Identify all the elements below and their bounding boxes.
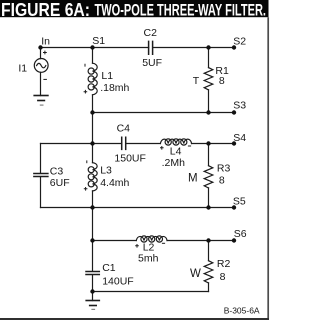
node S1 dot — [90, 45, 94, 49]
node S6 dot — [232, 238, 236, 242]
inductor L4 coil (horizontal) — [160, 139, 191, 143]
svg-text:L3: L3 — [100, 165, 112, 177]
svg-text:S5: S5 — [233, 195, 246, 207]
capacitor C4 plates — [122, 137, 126, 149]
inductor L1 coil (vertical) — [93, 63, 98, 95]
node S2 dot — [232, 45, 236, 49]
wire resistor column x=208 — [208, 48, 210, 292]
L4 plus — [160, 146, 164, 150]
L1 minus (tick) — [84, 64, 86, 67]
wire rail E (S6) — [93, 240, 235, 242]
svg-text:C1: C1 — [102, 262, 116, 274]
junction rail B / main — [90, 110, 94, 114]
source I1 sine — [37, 63, 46, 67]
svg-text:I1: I1 — [18, 63, 27, 75]
wire I1 column — [40, 48, 42, 96]
svg-text:W: W — [190, 268, 201, 280]
svg-text:.2Mh: .2Mh — [162, 157, 186, 169]
junction rail A / R1 — [206, 45, 210, 49]
bottom border — [0, 318, 269, 320]
junction rail C / R3 — [206, 141, 210, 145]
svg-text:L1: L1 — [101, 70, 113, 82]
svg-text:S1: S1 — [92, 35, 105, 47]
wire main column x=93 — [92, 48, 94, 301]
L4 minus — [188, 145, 191, 147]
ground (bottom) — [86, 300, 99, 302]
svg-text:R2: R2 — [217, 258, 231, 270]
wire rail D (S5) — [41, 207, 235, 209]
svg-text:R3: R3 — [217, 162, 231, 174]
svg-text:FIGURE 6A:: FIGURE 6A: — [1, 0, 90, 20]
svg-text:150UF: 150UF — [114, 153, 146, 165]
resistor R3 zigzag — [204, 166, 213, 188]
I1 minus — [43, 78, 47, 80]
polarity marks — [43, 51, 191, 248]
wire bottom rail — [93, 291, 209, 293]
node S5 dot — [232, 205, 236, 209]
junction rail E / main — [90, 238, 94, 242]
svg-text:C2: C2 — [144, 27, 158, 39]
svg-text:8: 8 — [219, 175, 225, 187]
resistor R1 zigzag — [204, 68, 213, 90]
svg-text:TWO-POLE THREE-WAY FILTER.: TWO-POLE THREE-WAY FILTER. — [95, 1, 267, 20]
junction bottom rail / C1 / ground — [90, 289, 94, 293]
wire rail B (S3) — [93, 112, 235, 114]
svg-text:5mh: 5mh — [138, 252, 159, 264]
junction rail D / R3 — [206, 205, 210, 209]
wire C3 column — [40, 144, 42, 208]
L1 plus — [84, 90, 88, 94]
svg-text:4.4mh: 4.4mh — [100, 177, 129, 189]
svg-text:C3: C3 — [50, 165, 64, 177]
svg-text:In: In — [41, 36, 50, 48]
resistor R2 zigzag — [204, 261, 213, 283]
node In dot — [38, 45, 42, 49]
title bar — [0, 0, 269, 17]
capacitor C3 plates — [34, 174, 48, 177]
wire rail A top — [41, 47, 235, 49]
junction rail C / main — [90, 141, 94, 145]
svg-text:140UF: 140UF — [102, 275, 134, 287]
capacitor C1 plates — [86, 272, 99, 275]
L3 minus (tick) — [86, 160, 88, 163]
svg-text:5UF: 5UF — [142, 57, 162, 69]
junction rail D / main — [90, 205, 94, 209]
inductor L2 coil (horizontal) — [136, 236, 167, 240]
svg-text:.18mh: .18mh — [100, 82, 129, 94]
wire rail C (S4) — [41, 143, 235, 145]
svg-text:B-305-6A: B-305-6A — [224, 305, 260, 315]
L2 plus — [135, 244, 139, 248]
inductor L3 coil (vertical) — [93, 163, 98, 191]
svg-text:T: T — [193, 75, 200, 87]
source I1 circle — [34, 59, 48, 73]
svg-text:S3: S3 — [233, 100, 246, 112]
svg-text:S2: S2 — [233, 35, 246, 47]
ground (I1) — [34, 95, 48, 97]
node S4 dot — [232, 141, 236, 145]
svg-text:S6: S6 — [234, 228, 247, 240]
svg-text:M: M — [188, 172, 198, 184]
svg-text:C4: C4 — [117, 122, 131, 134]
L2 minus — [162, 242, 165, 244]
L3 plus — [84, 187, 88, 191]
I1 plus — [43, 51, 47, 55]
right border — [267, 17, 269, 320]
svg-text:8: 8 — [220, 271, 226, 283]
svg-text:8: 8 — [219, 75, 225, 87]
junction rail B / R1 — [206, 110, 210, 114]
capacitor C2 plates — [149, 41, 153, 54]
svg-text:S4: S4 — [233, 132, 246, 144]
svg-text:6UF: 6UF — [50, 177, 70, 189]
junction rail E / R2 — [206, 238, 210, 242]
svg-text:L4: L4 — [170, 145, 182, 157]
node S3 dot — [232, 110, 236, 114]
